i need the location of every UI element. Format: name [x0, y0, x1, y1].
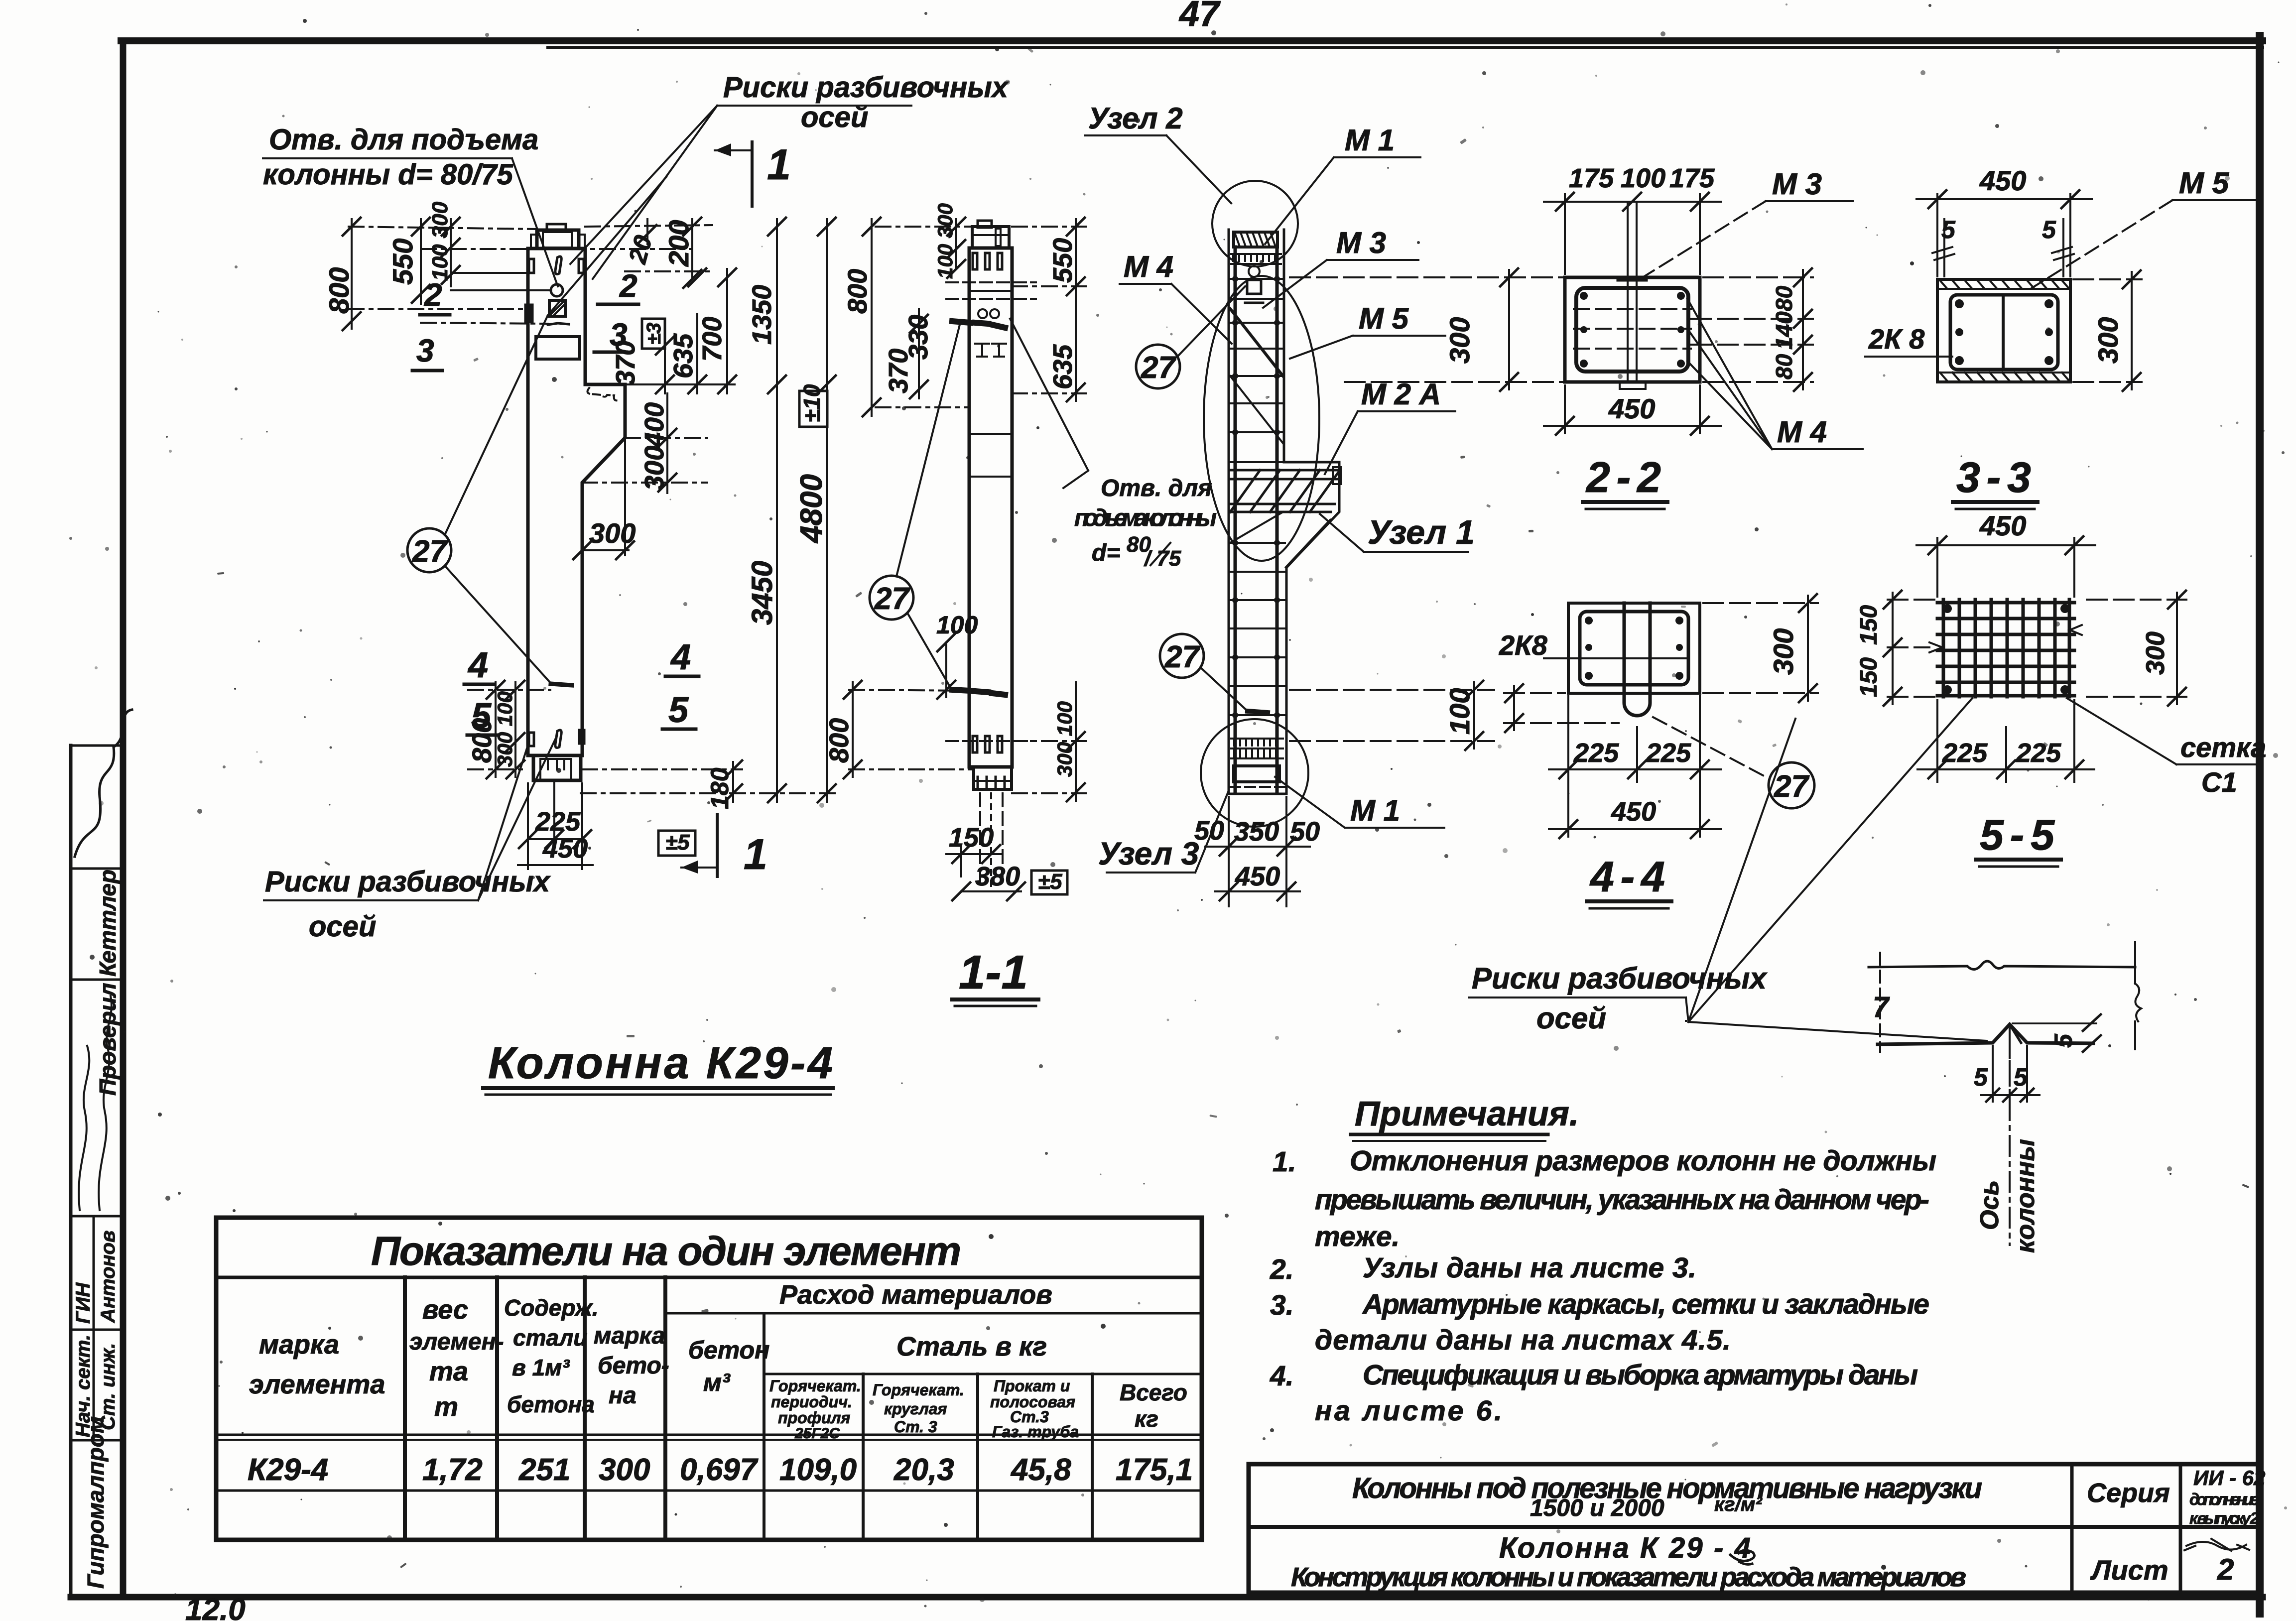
svg-text:Риски разбивочных: Риски разбивочных [1472, 962, 1768, 995]
svg-text:800: 800 [824, 718, 854, 763]
svg-text:/ 75: / 75 [1144, 546, 1181, 571]
section cut mark 1 (top) [715, 141, 791, 206]
svg-text:±5: ±5 [1038, 870, 1062, 894]
225 / 450 dims below [527, 783, 529, 869]
tolerance box ±3 [642, 319, 665, 349]
svg-text:550: 550 [1048, 238, 1078, 283]
2K8 label [1868, 323, 1925, 355]
svg-text:та: та [429, 1357, 468, 1386]
stirrup end dots [1232, 276, 1280, 718]
view1 dimension chains left [323, 201, 692, 330]
svg-text:Ст. 3: Ст. 3 [894, 1418, 937, 1436]
300 dim right [2073, 270, 2142, 391]
svg-text:Риски разбивочных: Риски разбивочных [723, 71, 1010, 104]
svg-text:Конструкция колонны и показа: Конструкция колонны и показатели расхода… [1291, 1562, 1966, 1592]
view1 right dims: 370, 635, 700, 1350 [611, 218, 786, 393]
top cap [972, 227, 1009, 248]
svg-text:225: 225 [1573, 738, 1619, 768]
svg-text:дополнение: дополнение [2189, 1490, 2259, 1508]
bottom 150 / 380 dims [960, 847, 962, 876]
svg-text:Проверил Кеттлер: Проверил Кеттлер [95, 870, 121, 1096]
svg-text:М 3: М 3 [1336, 226, 1386, 259]
svg-text:марка: марка [259, 1330, 339, 1360]
svg-text:М 4: М 4 [1124, 250, 1173, 283]
svg-text:Отклонения размеров колонн: Отклонения размеров колонн не должны [1350, 1145, 1936, 1177]
svg-text:Сталь в кг: Сталь в кг [896, 1332, 1047, 1362]
console reinforcement M2A hatch [1230, 470, 1338, 567]
svg-text:М 3: М 3 [1772, 167, 1822, 201]
svg-text:635: 635 [1048, 344, 1078, 389]
svg-text:т: т [434, 1392, 458, 1422]
title [1585, 454, 1661, 501]
view1 section marks 2,3 left [416, 277, 442, 369]
svg-text:в 1м³: в 1м³ [512, 1355, 570, 1380]
riska slots top [555, 256, 561, 274]
svg-text:50: 50 [1194, 816, 1224, 846]
svg-text:175: 175 [1569, 163, 1614, 193]
27 callout [1769, 762, 1814, 808]
100 small dim above lower hole [945, 642, 947, 697]
svg-text:3: 3 [416, 333, 434, 369]
100 dim left [1504, 684, 1619, 732]
svg-text:Показатели на один элемен: Показатели на один элемент [371, 1229, 961, 1274]
view1 taper dim 300 [573, 438, 636, 559]
svg-text:сетка: сетка [2180, 732, 2266, 763]
svg-text:27: 27 [874, 582, 910, 616]
header/data separator double [216, 1434, 1202, 1436]
svg-text:1,72: 1,72 [422, 1453, 483, 1487]
svg-text:150: 150 [949, 823, 994, 853]
svg-text:450: 450 [1235, 862, 1280, 891]
svg-text:Узел 2: Узел 2 [1088, 102, 1183, 135]
svg-text:Всего: Всего [1120, 1379, 1187, 1405]
notch surface line [1878, 1024, 2093, 1044]
svg-text:450: 450 [1979, 165, 2026, 196]
dims left 150 150 [1884, 591, 1937, 706]
svg-text:300: 300 [639, 446, 669, 491]
callout 27 circles near view3 [1136, 286, 1248, 711]
svg-text:4 - 4: 4 - 4 [1589, 853, 1665, 901]
svg-text:вес: вес [422, 1295, 468, 1325]
svg-text:5: 5 [2014, 1063, 2028, 1091]
svg-text:2: 2 [2217, 1553, 2234, 1586]
svg-text:Прокат и: Прокат и [994, 1377, 1070, 1395]
dashed band lines [946, 281, 1036, 283]
svg-text:450: 450 [542, 834, 588, 864]
bottom anchor dot rows [1231, 739, 1283, 758]
vertical lines [403, 1277, 407, 1540]
svg-text:450: 450 [1608, 393, 1655, 424]
header texts [249, 1280, 1052, 1422]
svg-text:550: 550 [387, 239, 418, 285]
svg-text:круглая: круглая [884, 1400, 947, 1418]
left side tab [525, 305, 532, 322]
svg-text:профиля: профиля [778, 1409, 850, 1427]
uzel circles [1201, 181, 1319, 827]
svg-text:превышать величин, указанных: превышать величин, указанных на данном ч… [1315, 1184, 1929, 1216]
svg-text:225: 225 [1646, 738, 1691, 768]
svg-text:2 - 2: 2 - 2 [1585, 454, 1661, 501]
svg-text:Содерж.: Содерж. [504, 1295, 598, 1321]
svg-text:Узел 3: Узел 3 [1098, 836, 1199, 872]
svg-text:800: 800 [323, 267, 355, 314]
smudge after К29-4 [1730, 1550, 1755, 1564]
dotted anchor rows top [1231, 254, 1281, 264]
grid [1937, 600, 2074, 697]
svg-text:d=: d= [1092, 540, 1120, 566]
svg-text:300: 300 [2092, 317, 2124, 364]
lower hole dashes [952, 690, 970, 691]
svg-text:бетона: бетона [507, 1391, 595, 1417]
small stamp squiggle above 2 [2184, 1539, 2249, 1551]
dims above: 175 100 175 [1544, 193, 1721, 276]
console hook detail [587, 388, 618, 400]
view3 right dims: 300 top, 100 bottom [1194, 268, 1565, 906]
bottom embed plate M1 [533, 755, 581, 780]
corner dots [1943, 604, 2069, 694]
right dims 80 140 80 [1691, 268, 1813, 391]
view1 right top dims: 20, 200 [585, 218, 712, 288]
svg-text:периодич.: периодич. [771, 1393, 852, 1411]
svg-text:225: 225 [2016, 738, 2061, 768]
svg-text:на: на [609, 1382, 637, 1409]
svg-text:25Г2С: 25Г2С [794, 1425, 840, 1442]
svg-text:С1: С1 [2201, 766, 2237, 798]
svg-text:150: 150 [1856, 657, 1882, 697]
svg-text:1350: 1350 [747, 285, 777, 345]
svg-text:3 - 3: 3 - 3 [1956, 454, 2031, 501]
svg-text:4: 4 [670, 637, 691, 677]
svg-text:М 4: М 4 [1777, 415, 1827, 449]
svg-text:М 5: М 5 [2179, 166, 2230, 200]
svg-text:1-1: 1-1 [959, 946, 1028, 999]
corner bars [1580, 292, 1685, 368]
svg-text:Риски разбивочных: Риски разбивочных [265, 866, 551, 898]
svg-text:Спецификация и выборка армат: Спецификация и выборка арматуры даны [1363, 1359, 1918, 1391]
bottom cap [974, 767, 1012, 789]
dims below 225 225, 450 [1549, 696, 1721, 838]
M4 label + leaders [1777, 415, 1827, 449]
450 dim below [1544, 385, 1721, 435]
svg-text:700: 700 [697, 317, 727, 362]
450 dim above [1916, 536, 2095, 597]
svg-text:1500 и 2000: 1500 и 2000 [1530, 1495, 1664, 1521]
diagonal braces [1230, 309, 1283, 376]
svg-text:27: 27 [1141, 351, 1176, 385]
bottom plate [1234, 766, 1279, 782]
dim line 550 [420, 219, 422, 304]
svg-text:800: 800 [843, 269, 873, 314]
svg-text:300: 300 [589, 517, 636, 549]
lower 27 dash [1248, 711, 1268, 713]
svg-text:300 100: 300 100 [1053, 701, 1076, 777]
svg-text:100: 100 [936, 611, 978, 639]
svg-text:5: 5 [1941, 216, 1956, 244]
svg-text:370: 370 [611, 341, 640, 385]
svg-text:Расход материалов: Расход материалов [779, 1280, 1052, 1310]
view1 overall dims: 3450, 4800, ±10 [581, 218, 837, 802]
svg-text:100: 100 [1444, 688, 1475, 735]
svg-text:300: 300 [1768, 628, 1799, 675]
svg-text:кг: кг [1135, 1406, 1158, 1432]
2K8 label [1499, 629, 1548, 661]
svg-text:300: 300 [1444, 317, 1475, 364]
svg-text:4: 4 [467, 645, 488, 685]
svg-text:5: 5 [2049, 1033, 2077, 1048]
svg-text:±10: ±10 [799, 384, 825, 422]
right vertical dim line with brace break [2134, 942, 2136, 984]
T marks [975, 344, 989, 357]
svg-text:бето-: бето- [598, 1353, 669, 1379]
svg-text:175,1: 175,1 [1116, 1453, 1193, 1487]
svg-text:Горячекат.: Горячекат. [873, 1381, 964, 1399]
svg-text:Гипромалпром: Гипромалпром [83, 1416, 109, 1589]
svg-text:80: 80 [1771, 354, 1797, 379]
svg-text:450: 450 [1611, 797, 1656, 827]
dims below 225 225 [1917, 700, 2094, 782]
label: отв. для подъема колонны d=80/75 (middle) [1074, 475, 1217, 571]
embed plate on face [536, 337, 580, 359]
svg-text:ИИ - 62: ИИ - 62 [2193, 1466, 2265, 1490]
dashed internals [1574, 308, 1691, 310]
label: 1-1 [959, 946, 1028, 999]
axis dash-dot line down [2009, 1028, 2011, 1245]
svg-text:300: 300 [599, 1453, 650, 1487]
svg-text:элемента: элемента [249, 1370, 385, 1399]
outline [1228, 230, 1230, 794]
longitudinal bars [1234, 247, 1237, 791]
svg-text:7: 7 [1873, 991, 1890, 1023]
svg-text:12.0: 12.0 [185, 1593, 246, 1621]
5 5 small dims [1932, 219, 2074, 276]
corner bars [1955, 299, 2053, 365]
page number 47 [1178, 0, 1221, 34]
svg-text:стали: стали [513, 1325, 587, 1351]
column face line with break [1869, 961, 2135, 970]
svg-text:1: 1 [744, 831, 767, 878]
svg-text:осей: осей [1536, 1001, 1606, 1035]
view1 right dims: 400, 300 [582, 393, 707, 493]
svg-text:27: 27 [1164, 640, 1200, 674]
svg-text:50: 50 [1290, 817, 1320, 847]
bottom riska slots [529, 733, 534, 746]
svg-text:450: 450 [1979, 510, 2026, 541]
svg-text:300 100: 300 100 [493, 691, 516, 767]
svg-text:400: 400 [639, 402, 669, 448]
svg-text:Узел 1: Узел 1 [1368, 513, 1475, 551]
svg-text:2К8: 2К8 [1499, 629, 1548, 661]
svg-text:5: 5 [2042, 216, 2056, 244]
svg-text:200: 200 [663, 220, 694, 267]
section marks 4,5 left [467, 645, 492, 736]
data row [248, 1453, 1193, 1487]
projection dashes below [979, 793, 981, 881]
svg-text:5: 5 [668, 690, 689, 730]
svg-text:Отв. для подъема: Отв. для подъема [269, 124, 538, 156]
label: Риски разбивочных осей (top) [723, 71, 1010, 133]
svg-text:2.: 2. [1270, 1253, 1294, 1285]
svg-text:подъема колонны: подъема колонны [1074, 505, 1217, 531]
svg-text:детали даны на листах 4.5.: детали даны на листах 4.5. [1315, 1324, 1731, 1356]
label: Риски разбивочных осей (bottom middle) [1472, 962, 1768, 1035]
svg-text:100 300: 100 300 [428, 201, 452, 281]
M5 label [2179, 166, 2230, 200]
bottom left 800 and 100 [849, 690, 971, 691]
svg-text:370: 370 [884, 349, 913, 393]
svg-text:м³: м³ [703, 1369, 731, 1396]
svg-text:Колонна К29-4: Колонна К29-4 [488, 1038, 833, 1088]
svg-text:109,0: 109,0 [779, 1453, 857, 1487]
svg-text:225: 225 [535, 807, 581, 837]
svg-text:2К 8: 2К 8 [1868, 323, 1925, 355]
7 label [1873, 991, 1890, 1023]
right: 550, 635 [1012, 226, 1086, 228]
column outline [528, 249, 625, 755]
svg-text:К29-4: К29-4 [248, 1453, 328, 1487]
svg-text:±3: ±3 [643, 323, 665, 345]
view3 labels [1088, 102, 1475, 872]
svg-text:Отв. для: Отв. для [1101, 475, 1212, 501]
top embed plate M1 [537, 230, 579, 249]
title [1589, 853, 1665, 901]
svg-text:251: 251 [518, 1453, 570, 1487]
data row line [216, 1490, 1202, 1492]
section marks 4,5 right [668, 637, 691, 730]
svg-text:4800: 4800 [794, 474, 829, 544]
dim line 800 [351, 219, 353, 329]
svg-text:3450: 3450 [746, 561, 778, 625]
svg-text:к выпуску 2: к выпуску 2 [2189, 1509, 2260, 1527]
svg-text:Примечания.: Примечания. [1355, 1094, 1579, 1133]
svg-text:Антонов: Антонов [97, 1231, 119, 1323]
svg-text:1: 1 [767, 141, 791, 189]
svg-text:колонны: колонны [2011, 1139, 2040, 1253]
svg-text:теже.: теже. [1315, 1221, 1400, 1252]
svg-text:300: 300 [2141, 631, 2170, 675]
top slots [973, 253, 977, 269]
svg-text:марка: марка [594, 1323, 665, 1349]
svg-text:80: 80 [1771, 285, 1797, 311]
view2 dims left: 800, 100/300, 330, 370 [824, 203, 1086, 900]
top detail circle + square [1249, 266, 1260, 277]
svg-text:100: 100 [1621, 163, 1665, 193]
stirrup [1950, 295, 2058, 370]
svg-text:27: 27 [412, 534, 448, 569]
label: Риски разбивочных осей (bottom left) [265, 866, 551, 943]
svg-text:4.: 4. [1270, 1360, 1294, 1392]
right 300 100 rotated [1012, 740, 1086, 742]
title [1956, 454, 2031, 501]
svg-text:Газ. труба: Газ. труба [992, 1423, 1079, 1441]
hatched top/bottom strips [1940, 280, 2069, 288]
svg-text:140: 140 [1771, 311, 1797, 350]
svg-text:3.: 3. [1270, 1289, 1294, 1321]
300 right [2087, 591, 2186, 706]
svg-text:М 5: М 5 [1359, 302, 1409, 335]
сетка C1 label [2180, 732, 2266, 798]
signatures (squiggles) [79, 1046, 89, 1210]
corner bars [1585, 617, 1683, 680]
300 dim right [1703, 594, 1818, 702]
extension dash lines [349, 227, 537, 229]
callout circle 27 (view1) [407, 177, 666, 683]
U bar [1624, 603, 1650, 716]
bottom dims 50 350 50 / 450 [1228, 797, 1230, 906]
title row [216, 1276, 1202, 1279]
svg-text:175: 175 [1669, 163, 1715, 193]
label: Колонна К29-4 [488, 1038, 833, 1088]
left signature strip [71, 710, 132, 1597]
svg-text:2: 2 [619, 268, 638, 304]
top plate M1 hatched [1234, 232, 1277, 247]
450 dim above [1916, 190, 2092, 276]
svg-text:380: 380 [975, 862, 1020, 891]
svg-text:осей: осей [309, 910, 376, 943]
header sub-lines [665, 1312, 1202, 1315]
view1 section marks 2,3 right [610, 268, 638, 353]
lifting hole circle [551, 284, 563, 296]
svg-text:27: 27 [1774, 769, 1809, 804]
svg-text:Арматурные каркасы, сетки и: Арматурные каркасы, сетки и закладные [1362, 1288, 1929, 1320]
svg-text:2: 2 [424, 277, 442, 313]
svg-text:элемен-: элемен- [409, 1329, 504, 1355]
svg-text:ГИН: ГИН [72, 1282, 94, 1324]
5 height dim right of notch [2013, 1022, 2096, 1024]
180 dim [582, 768, 742, 770]
title [1980, 811, 2055, 859]
svg-text:45,8: 45,8 [1010, 1453, 1071, 1487]
svg-text:Серия: Серия [2087, 1478, 2170, 1508]
svg-text:кг/м²: кг/м² [1714, 1494, 1763, 1515]
svg-text:47: 47 [1178, 0, 1221, 34]
lifting hole circles [978, 309, 987, 318]
label: Отв. для подъема колонны d=80/75 (top left) [263, 124, 538, 191]
svg-text:М 1: М 1 [1345, 124, 1395, 157]
middle channel (M3) [1627, 279, 1629, 380]
svg-text:150: 150 [1856, 605, 1882, 645]
svg-text:635: 635 [668, 333, 698, 378]
embed square M3 [549, 300, 565, 316]
svg-text:350: 350 [1234, 817, 1279, 847]
svg-text:колонны d= 80/75: колонны d= 80/75 [263, 158, 513, 191]
svg-text:20,3: 20,3 [893, 1453, 954, 1487]
svg-text:1.: 1. [1273, 1146, 1296, 1178]
callout 27 view2 [870, 323, 960, 691]
stirrup [1576, 288, 1688, 372]
view1 bottom dims [464, 637, 742, 869]
svg-text:Узлы даны на листе 3.: Узлы даны на листе 3. [1363, 1252, 1696, 1284]
outline [969, 248, 1012, 767]
Ось колонны rotated [1975, 1139, 2040, 1253]
M3 label + leader [1772, 167, 1822, 201]
bottom slots [973, 736, 977, 752]
handwritten 12.0 bottom left [185, 1593, 246, 1621]
svg-text:М 1: М 1 [1350, 794, 1400, 827]
svg-text:Лист: Лист [2090, 1554, 2168, 1586]
svg-text:225: 225 [1942, 738, 1988, 768]
dim line 100/300 [450, 219, 452, 286]
console [1284, 462, 1339, 794]
svg-text:5: 5 [471, 696, 492, 736]
svg-text:5 - 5: 5 - 5 [1980, 811, 2055, 859]
mark 4 dash [551, 684, 572, 685]
svg-text:5: 5 [1974, 1063, 1988, 1091]
svg-text:100 300: 100 300 [933, 203, 957, 279]
svg-text:Ось: Ось [1975, 1180, 2004, 1230]
band lines mid [969, 433, 1012, 435]
black hole dashes [952, 321, 970, 323]
section cut mark 1 (bottom) [681, 815, 767, 878]
